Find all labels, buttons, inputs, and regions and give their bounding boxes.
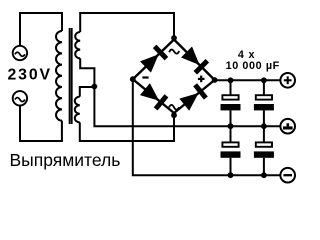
diode D2 top-right (174, 40, 215, 81)
junction zero rail C2 C4 (261, 123, 267, 129)
wire plus rail (215, 79, 281, 81)
svg-text:Выпрямитель: Выпрямитель (10, 150, 121, 170)
junction minus rail C3 (228, 172, 234, 178)
capacitor C1 (221, 80, 241, 126)
diode D1 top-left (133, 40, 174, 80)
wire center tap (80, 58, 280, 126)
transformer T1 secondary upper winding (75, 32, 80, 58)
ac source V2 (13, 91, 27, 105)
junction plus rail C1 (228, 77, 234, 83)
junction bridge bottom (171, 112, 177, 118)
label ac bottom (169, 105, 179, 110)
label minus bridge (142, 76, 148, 78)
junction center tap (92, 84, 98, 90)
ac source V1 (13, 46, 27, 60)
terminal minus output (280, 168, 295, 183)
transformer T1 core (70, 28, 72, 124)
label plus bridge (198, 76, 205, 83)
label ac top (169, 49, 180, 55)
junction bridge left (130, 76, 136, 82)
transformer T1 primary winding (56, 31, 62, 121)
junction bridge top (171, 35, 177, 41)
diode D4 bottom-right (174, 80, 215, 113)
wire V1 to primary top (20, 13, 62, 46)
transformer T1 secondary lower winding (75, 97, 80, 123)
diode D3 bottom-left (133, 79, 174, 113)
junction zero rail C1 C3 (228, 123, 234, 129)
wire secondary top to bridge top (80, 13, 174, 40)
wire secondary lower to bridge bottom (80, 113, 174, 141)
capacitor C2 (254, 80, 274, 126)
junction bridge right (212, 77, 218, 83)
terminal ground output (280, 119, 295, 134)
wire tap to secondary lower (80, 87, 95, 97)
wire V2 to primary bottom (20, 106, 62, 142)
junction minus rail C4 (261, 172, 267, 178)
terminal plus output (280, 73, 295, 88)
svg-text:230V: 230V (8, 67, 53, 84)
capacitor C3 (221, 126, 241, 175)
wire minus rail (133, 79, 281, 175)
svg-text:10 000 µF: 10 000 µF (226, 60, 280, 72)
junction plus rail C2 (261, 77, 267, 83)
capacitor C4 (254, 126, 274, 175)
